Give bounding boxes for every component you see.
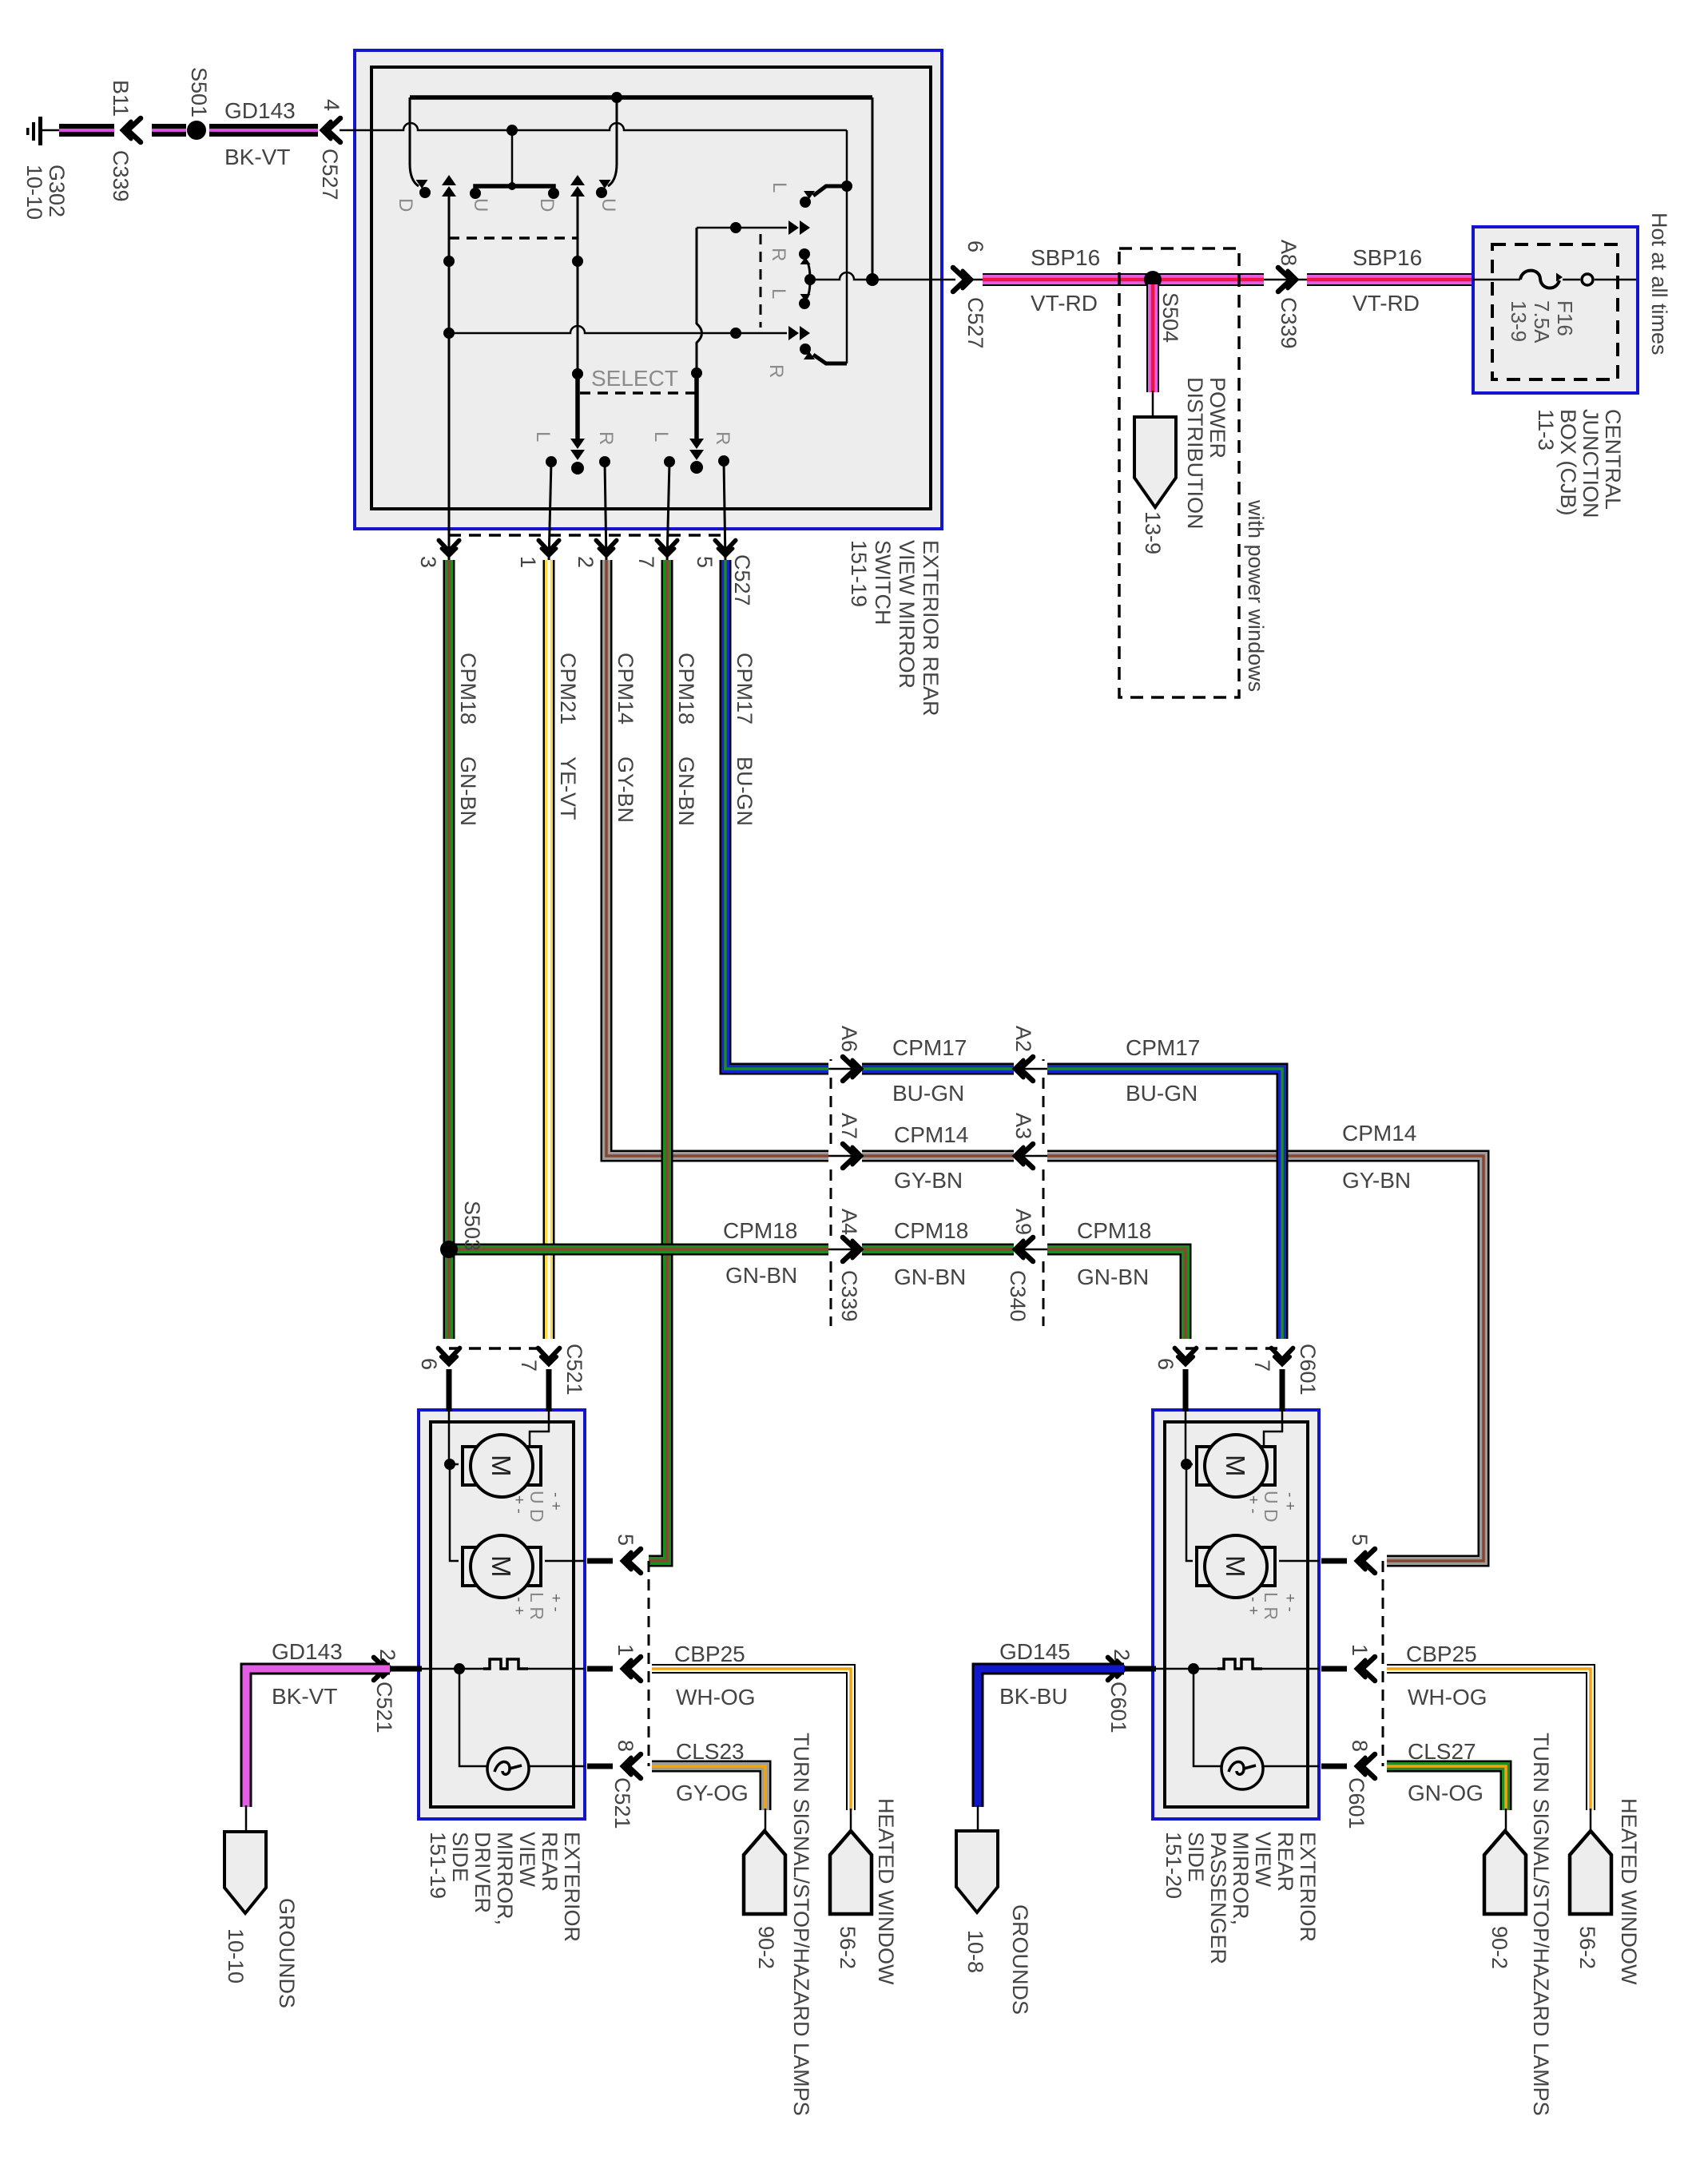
- SELECT label: [591, 366, 678, 391]
- svg-text:S501: S501: [187, 67, 211, 117]
- select pole right vertical: [691, 228, 702, 379]
- label CLS27: [1408, 1739, 1476, 1764]
- label with power windows: [1244, 499, 1268, 692]
- svg-text:POWER: POWER: [1205, 377, 1229, 459]
- fuse F16 terminal circle: [1582, 274, 1593, 285]
- svg-text:8: 8: [1348, 1740, 1372, 1752]
- label S501: [187, 67, 211, 117]
- svg-text:G302: G302: [45, 165, 69, 217]
- switch feed thick bus line: [410, 95, 872, 100]
- label pin 7 passenger: [1250, 1360, 1274, 1372]
- common contact middle: [799, 248, 816, 309]
- label C340 middle: [1006, 1270, 1030, 1322]
- label GN-BN before A4: [725, 1263, 797, 1288]
- wire SBP16 VT-RD segment 1: [983, 273, 1275, 286]
- switch blade D (driver up/down): [410, 97, 431, 198]
- svg-text:R: R: [765, 364, 787, 378]
- wire GD143 BK-VT (driver ground): [246, 1669, 390, 1807]
- svg-text:CENTRAL: CENTRAL: [1601, 409, 1625, 510]
- connector C527 pin 2 arrow: [596, 540, 617, 556]
- connector C527 pin 3 arrow: [439, 540, 459, 556]
- label WH-OG driver: [676, 1685, 756, 1709]
- driver lamp out line: [529, 1765, 585, 1768]
- svg-text:S503: S503: [460, 1201, 484, 1251]
- svg-text:GN-BN: GN-BN: [894, 1265, 966, 1289]
- passenger pin5 stub: [1321, 1559, 1347, 1564]
- svg-text:U: U: [470, 198, 491, 212]
- connector C527 dashed line: [449, 534, 725, 537]
- svg-text:CPM17: CPM17: [733, 653, 757, 725]
- label A9: [1011, 1209, 1035, 1235]
- svg-text:+ -: + -: [1245, 1495, 1261, 1514]
- switch output line y350: [810, 272, 955, 286]
- label A7: [837, 1113, 861, 1139]
- svg-text:CPM14: CPM14: [894, 1122, 968, 1147]
- label pin 5: [693, 556, 717, 568]
- passenger left/right motor M: [1197, 1535, 1275, 1598]
- svg-text:A3: A3: [1011, 1113, 1035, 1139]
- label Hot at all times: [1647, 212, 1671, 355]
- connector C340 dashed (middle): [1043, 1059, 1045, 1326]
- svg-text:Hot at all times: Hot at all times: [1647, 212, 1671, 355]
- label B11: [109, 80, 133, 117]
- svg-text:10-10: 10-10: [22, 165, 46, 220]
- svg-text:REAR: REAR: [1273, 1832, 1297, 1892]
- label C521 pin2: [372, 1682, 396, 1733]
- passenger mirror box: [1153, 1410, 1319, 1819]
- label C339: [109, 150, 133, 202]
- passenger lamp out line: [1263, 1765, 1319, 1768]
- label C527 (switch ground pin): [318, 149, 342, 201]
- label 13-9: [1141, 511, 1165, 554]
- svg-text:7: 7: [634, 556, 658, 568]
- svg-text:+ -: + -: [547, 1594, 564, 1612]
- passenger pin 2 arrow: [1108, 1658, 1126, 1681]
- label BU-GN mid: [892, 1081, 964, 1106]
- CJB inner dashed box: [1492, 244, 1618, 379]
- label C339 (power): [1277, 297, 1301, 349]
- svg-text:BK-VT: BK-VT: [272, 1684, 337, 1709]
- switch output arrow pin6: [953, 268, 971, 292]
- label GD143: [224, 98, 296, 123]
- label UD polarity: [1245, 1491, 1298, 1523]
- label POWER DISTRIBUTION: [1183, 377, 1229, 530]
- label GN-BN pin3: [456, 756, 480, 826]
- wire feed into switch (y163) with corner down: [340, 123, 847, 363]
- junction dot on bus: [611, 92, 622, 103]
- label LR polarity: [1245, 1592, 1298, 1620]
- passenger pin 1 arrow: [1356, 1657, 1375, 1681]
- svg-text:CBP25: CBP25: [674, 1642, 745, 1666]
- svg-text:EXTERIOR: EXTERIOR: [560, 1832, 584, 1942]
- SELECT dashed link: [580, 391, 696, 395]
- off-page arrow HEATED WINDOW driver: [830, 1831, 872, 1914]
- label HEATED WINDOW driver: [874, 1798, 898, 1985]
- svg-text:CBP25: CBP25: [1406, 1642, 1477, 1666]
- svg-text:TURN SIGNAL/STOP/HAZARD LAMPS: TURN SIGNAL/STOP/HAZARD LAMPS: [789, 1733, 813, 2116]
- svg-text:+ -: + -: [1281, 1594, 1298, 1612]
- connector arrow A9: [1014, 1237, 1047, 1261]
- label pin 6 passenger: [1154, 1358, 1178, 1370]
- splice S501: [187, 121, 206, 140]
- label CPM18 mid: [894, 1218, 968, 1243]
- svg-text:WH-OG: WH-OG: [676, 1685, 756, 1709]
- label C521 top: [562, 1344, 586, 1396]
- junction dot pole2 upper: [572, 256, 583, 267]
- svg-text:BOX (CJB): BOX (CJB): [1556, 409, 1580, 516]
- fuse lead-out: [1563, 279, 1636, 281]
- label L middle: [768, 288, 789, 299]
- label C339 middle: [837, 1270, 861, 1322]
- svg-text:2: 2: [574, 556, 598, 568]
- svg-text:C601: C601: [1345, 1777, 1368, 1829]
- passenger up/down motor M: [1197, 1435, 1275, 1497]
- label A6: [837, 1026, 861, 1052]
- svg-text:A6: A6: [837, 1026, 861, 1052]
- label pin 1 passenger: [1348, 1644, 1372, 1656]
- svg-text:C340: C340: [1006, 1270, 1030, 1322]
- label GD143 driver: [272, 1639, 343, 1664]
- passenger pin 6 arrow: [1175, 1348, 1197, 1365]
- label C601 pin8: [1345, 1777, 1368, 1829]
- svg-text:151-19: 151-19: [847, 540, 871, 607]
- driver motor2 output to pin5: [545, 1560, 585, 1563]
- passenger motor2 output to pin5: [1279, 1560, 1319, 1563]
- svg-text:CPM17: CPM17: [1126, 1035, 1200, 1060]
- label GY-OG: [676, 1781, 749, 1805]
- svg-text:A4: A4: [837, 1209, 861, 1235]
- label CBP25 passenger: [1406, 1642, 1477, 1666]
- svg-text:C521: C521: [610, 1777, 634, 1829]
- driver connector dashed right: [648, 1561, 650, 1766]
- svg-text:56-2: 56-2: [836, 1926, 860, 1969]
- driver lamp feed line: [459, 1669, 487, 1766]
- label CPM18 pin3: [456, 653, 480, 725]
- driver pin 2 wire stub: [390, 1666, 422, 1672]
- svg-text:WH-OG: WH-OG: [1408, 1685, 1487, 1709]
- passenger heater out line: [1262, 1668, 1319, 1670]
- connector arrow A2: [1014, 1057, 1047, 1081]
- svg-text:56-2: 56-2: [1575, 1926, 1599, 1969]
- passenger mirror lamp: [1221, 1748, 1263, 1789]
- label SBP16 left: [1031, 245, 1100, 270]
- label L upper: [769, 182, 790, 193]
- driver pin6 stub: [447, 1369, 452, 1464]
- label pin 5 passenger: [1348, 1534, 1372, 1546]
- passenger pin 8 arrow: [1356, 1754, 1375, 1778]
- svg-text:MIRROR,: MIRROR,: [1229, 1832, 1253, 1925]
- svg-text:1: 1: [516, 556, 540, 568]
- label 56-2 driver: [836, 1926, 860, 1969]
- splice S504: [1144, 271, 1162, 288]
- wire GD143 BK-VT segment 1: [59, 124, 114, 137]
- passenger connector dashed right: [1382, 1561, 1384, 1766]
- svg-text:CPM14: CPM14: [1342, 1121, 1416, 1146]
- driver pin5 stub: [587, 1559, 613, 1564]
- connector arrow A3: [1014, 1144, 1047, 1168]
- svg-text:DRIVER: DRIVER: [471, 1832, 495, 1913]
- svg-text:151-19: 151-19: [426, 1832, 450, 1899]
- connector C527 arrow pin 4: [322, 118, 340, 142]
- label UD polarity: [510, 1491, 564, 1523]
- label pin 3: [416, 556, 440, 568]
- line to heated window arrow driver: [850, 1809, 852, 1831]
- label C527 (bottom): [730, 554, 754, 606]
- line to heated window arrow passenger: [1590, 1809, 1592, 1831]
- wire GD145 BK-BU (passenger ground): [978, 1669, 1124, 1807]
- wire CPM21 YE-VT pin1: [543, 560, 555, 1339]
- driver heater out line: [528, 1668, 585, 1670]
- label GD145: [999, 1639, 1070, 1664]
- label TURN SIGNAL/STOP/HAZARD LAMPS driver: [789, 1733, 813, 2116]
- svg-text:GD143: GD143: [272, 1639, 343, 1664]
- svg-text:5: 5: [614, 1534, 637, 1546]
- svg-text:S504: S504: [1158, 292, 1182, 343]
- driver pin8 stub: [587, 1764, 613, 1769]
- passenger heater element: [1217, 1659, 1262, 1669]
- svg-text:5: 5: [1348, 1534, 1372, 1546]
- central junction box: [1473, 227, 1638, 393]
- label D contact passenger: [536, 198, 558, 212]
- label pin 2: [574, 556, 598, 568]
- svg-text:3: 3: [416, 556, 440, 568]
- svg-text:GN-BN: GN-BN: [725, 1263, 797, 1288]
- wire CPM14 GY-BN pin2: [606, 560, 1484, 1561]
- label YE-VT pin1: [556, 756, 580, 820]
- svg-text:TURN SIGNAL/STOP/HAZARD LAMPS: TURN SIGNAL/STOP/HAZARD LAMPS: [1529, 1733, 1553, 2116]
- junction dot right vertical: [841, 181, 852, 192]
- svg-text:A9: A9: [1011, 1209, 1035, 1235]
- svg-text:GROUNDS: GROUNDS: [275, 1898, 299, 2008]
- svg-text:MIRROR,: MIRROR,: [493, 1832, 517, 1925]
- svg-text:R: R: [595, 431, 617, 445]
- driver mirror inner frame: [431, 1422, 574, 1807]
- svg-text:CLS27: CLS27: [1408, 1739, 1476, 1764]
- label A4: [837, 1209, 861, 1235]
- label GN-OG: [1408, 1781, 1484, 1805]
- driver mirror lamp: [487, 1748, 529, 1789]
- bus drop vertical to output: [872, 97, 874, 280]
- svg-text:7: 7: [517, 1360, 541, 1372]
- svg-text:6: 6: [417, 1358, 441, 1370]
- svg-text:C527: C527: [318, 149, 342, 201]
- label pin 5 driver: [614, 1534, 637, 1546]
- driver pin1 stub: [587, 1666, 613, 1672]
- label CPM14 pin2: [614, 653, 637, 725]
- connector C527 pin 1 arrow: [538, 540, 559, 556]
- svg-text:L R: L R: [526, 1592, 547, 1620]
- svg-text:90-2: 90-2: [1487, 1926, 1511, 1969]
- label CPM14 right: [1342, 1121, 1416, 1146]
- svg-text:M: M: [1221, 1455, 1250, 1477]
- passenger pin7 stub: [1264, 1369, 1282, 1447]
- driver pin 6 arrow: [439, 1348, 460, 1365]
- passenger pin 5 arrow: [1356, 1549, 1375, 1573]
- select pole thick actuator right: [689, 373, 704, 474]
- connector C339 dashed (middle): [830, 1059, 832, 1326]
- off-page arrow TURN SIGNAL driver: [744, 1831, 785, 1914]
- line to turn signal arrow driver: [765, 1809, 767, 1831]
- driver pin6 internal junction: [444, 1459, 459, 1561]
- connector C339/B11 arrow: [122, 118, 141, 142]
- label GN-BN right: [1077, 1265, 1149, 1289]
- svg-text:13-9: 13-9: [1141, 511, 1165, 554]
- svg-text:7.5A: 7.5A: [1530, 300, 1554, 343]
- svg-text:C601: C601: [1296, 1344, 1320, 1396]
- driver pin 7 arrow: [538, 1348, 560, 1365]
- svg-text:R: R: [768, 248, 789, 261]
- svg-text:D: D: [536, 198, 558, 212]
- driver pin7 stub: [530, 1369, 549, 1447]
- label pin 1 driver: [614, 1644, 637, 1656]
- svg-text:L: L: [769, 182, 790, 193]
- label S503: [460, 1201, 484, 1251]
- svg-text:CPM18: CPM18: [723, 1218, 797, 1243]
- connector arrow A7: [828, 1144, 862, 1168]
- off-page arrow 13-9 (power distribution): [1134, 417, 1176, 507]
- svg-text:- +: - +: [1245, 1597, 1261, 1615]
- svg-text:8: 8: [614, 1740, 637, 1752]
- svg-text:U D: U D: [526, 1491, 547, 1523]
- bottom row contact L2: [664, 456, 675, 562]
- wire SBP16 VT-RD segment 2: [1307, 273, 1473, 286]
- label HEATED WINDOW passenger: [1617, 1798, 1641, 1985]
- label CPM18 before A4: [723, 1218, 797, 1243]
- label BK-VT: [224, 145, 290, 169]
- label 90-2 passenger: [1487, 1926, 1511, 1969]
- line to grounds arrow driver: [245, 1805, 248, 1833]
- svg-text:VIEW: VIEW: [515, 1832, 539, 1888]
- passenger pin6 internal junction: [1181, 1459, 1193, 1561]
- label 10-8: [963, 1930, 987, 1973]
- svg-text:BU-GN: BU-GN: [1126, 1081, 1198, 1106]
- svg-text:BK-BU: BK-BU: [999, 1684, 1068, 1709]
- connector arrow A6: [828, 1057, 862, 1081]
- label pin 7: [634, 556, 658, 568]
- label EXTERIOR REAR VIEW MIRROR SWITCH 151-19: [847, 540, 943, 717]
- svg-text:SBP16: SBP16: [1352, 245, 1422, 270]
- fuse F16 element: [1520, 271, 1563, 288]
- wire CPM18 GN-BN pin3 (to S503): [443, 560, 455, 1245]
- wire SBP16 vertical drop: [1146, 284, 1159, 392]
- svg-text:4: 4: [320, 99, 344, 111]
- svg-text:2: 2: [375, 1649, 399, 1661]
- passenger connector C601 dashed: [1186, 1347, 1282, 1350]
- wire CLS23 GY-OG driver: [652, 1766, 765, 1810]
- svg-text:CLS23: CLS23: [676, 1739, 745, 1764]
- label A3: [1011, 1113, 1035, 1139]
- L/R pole line upper: [697, 220, 810, 235]
- label GROUNDS driver: [275, 1898, 299, 2008]
- svg-text:CPM21: CPM21: [556, 653, 580, 725]
- svg-text:1: 1: [1348, 1644, 1372, 1656]
- svg-text:L: L: [650, 431, 672, 442]
- wire GD143 BK-VT segment 3: [209, 124, 318, 137]
- label U contact passenger: [598, 198, 619, 212]
- label pin 6 (switch output): [963, 240, 987, 252]
- wire CPM18 GN-BN S503 to driver pin 6: [443, 1253, 455, 1339]
- label CLS23: [676, 1739, 745, 1764]
- L/R pole line lower: [449, 326, 810, 340]
- label pin 6 driver: [417, 1358, 441, 1370]
- svg-text:CPM18: CPM18: [456, 653, 480, 725]
- label C601 top: [1296, 1344, 1320, 1396]
- passenger lamp feed line: [1194, 1669, 1221, 1766]
- label CENTRAL JUNCTION BOX (CJB) 11-3: [1534, 409, 1625, 518]
- ground symbol G302: [26, 117, 59, 145]
- label GY-BN mid: [894, 1168, 963, 1193]
- label 90-2 driver: [754, 1926, 778, 1969]
- svg-text:EXTERIOR: EXTERIOR: [1296, 1832, 1320, 1942]
- connector C527 pin 5 arrow: [715, 540, 736, 556]
- passenger pin8 stub: [1321, 1764, 1347, 1769]
- svg-text:M: M: [487, 1555, 516, 1578]
- svg-text:GY-BN: GY-BN: [1342, 1168, 1411, 1193]
- line to off-page arrow 13-9: [1152, 391, 1154, 419]
- svg-text:SIDE: SIDE: [1184, 1832, 1208, 1882]
- svg-text:A7: A7: [837, 1113, 861, 1139]
- svg-text:with power windows: with power windows: [1244, 499, 1268, 692]
- line to SBP16: [968, 279, 984, 281]
- label R2: [712, 431, 733, 445]
- svg-text:6: 6: [963, 240, 987, 252]
- power distribution dashed box: [1119, 248, 1239, 697]
- label BK-VT driver: [272, 1684, 337, 1709]
- svg-text:C527: C527: [730, 554, 754, 606]
- svg-text:HEATED WINDOW: HEATED WINDOW: [1617, 1798, 1641, 1985]
- label LR polarity: [510, 1592, 564, 1620]
- label TURN SIGNAL/STOP/HAZARD LAMPS passenger: [1529, 1733, 1553, 2116]
- label GY-BN pin2: [614, 756, 637, 823]
- off-page arrow TURN SIGNAL passenger: [1484, 1831, 1526, 1914]
- label R1: [595, 431, 617, 445]
- label CPM17 mid: [892, 1035, 967, 1060]
- svg-text:- +: - +: [510, 1597, 527, 1615]
- driver left/right motor M: [463, 1535, 541, 1598]
- label CPM18 pin7: [674, 653, 698, 725]
- label CBP25 driver: [674, 1642, 745, 1666]
- svg-text:SELECT: SELECT: [591, 366, 678, 391]
- label VT-RD right: [1352, 291, 1420, 316]
- svg-text:90-2: 90-2: [754, 1926, 778, 1969]
- junction dots pole1: [443, 256, 455, 339]
- svg-text:GN-BN: GN-BN: [674, 756, 698, 826]
- wire CBP25 WH-OG passenger: [1387, 1669, 1591, 1810]
- SELECT pole junction dot: [572, 368, 583, 379]
- label GY-BN right: [1342, 1168, 1411, 1193]
- blade L upper right: [800, 186, 847, 208]
- pole arrows passenger U/D switch: [570, 175, 585, 374]
- fuse F16 lead-in: [1473, 279, 1520, 281]
- svg-text:A8: A8: [1277, 240, 1301, 266]
- svg-text:DISTRIBUTION: DISTRIBUTION: [1183, 377, 1207, 530]
- svg-text:7: 7: [1250, 1360, 1274, 1372]
- label D contact driver: [395, 198, 416, 212]
- label A8: [1277, 240, 1301, 266]
- blade R lower right: [800, 343, 847, 363]
- label pin 7 driver: [517, 1360, 541, 1372]
- svg-text:VIEW MIRROR: VIEW MIRROR: [895, 540, 919, 689]
- pole arrows driver U/D switch: [442, 175, 456, 562]
- label GN-BN pin7: [674, 756, 698, 826]
- driver connector C521 dashed: [449, 1347, 549, 1350]
- passenger mirror inner frame: [1165, 1422, 1308, 1807]
- junction dot feed/U-bar tap: [506, 125, 518, 136]
- svg-text:YE-VT: YE-VT: [556, 756, 580, 820]
- label L1: [532, 431, 554, 442]
- wire CPM18 GN-BN S503 run (to passenger pin6): [449, 1249, 1186, 1339]
- select pole thick actuator left: [570, 374, 585, 475]
